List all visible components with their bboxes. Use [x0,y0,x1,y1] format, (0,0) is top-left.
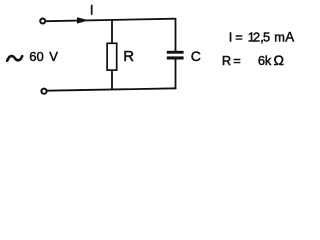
wire top [46,19,176,22]
svg-text:R: R [123,48,134,65]
wire resistor branch bottom lead [111,70,113,90]
svg-text:A: A [285,30,294,45]
terminal bottom-left [41,89,46,94]
svg-text:R: R [222,53,231,68]
svg-text:2: 2 [253,30,260,45]
svg-text:=: = [233,53,240,68]
wire right vertical (top segment to capacitor) [175,18,177,51]
svg-text:I: I [90,2,94,18]
svg-text:I: I [229,30,233,45]
svg-text:k: k [265,53,272,68]
capacitor C bottom plate [167,56,184,59]
value label R = 6 kOhm [222,52,284,68]
svg-text:60: 60 [29,49,43,64]
terminal top-left [40,19,45,24]
AC source tilde symbol [7,56,22,61]
current arrow I [77,17,89,23]
wire right vertical (capacitor to bottom) [175,59,177,89]
resistor R body [107,43,117,70]
svg-text:m: m [274,30,285,45]
capacitor C top plate [167,51,184,54]
svg-text:C: C [191,48,201,64]
value label I = 12,5 mA [229,30,294,45]
svg-text:=: = [235,30,242,45]
svg-text:Ω: Ω [274,52,284,68]
svg-text:5: 5 [263,30,270,45]
svg-text:V: V [49,49,58,64]
wire bottom [47,88,176,90]
wire resistor branch top lead [111,20,113,44]
